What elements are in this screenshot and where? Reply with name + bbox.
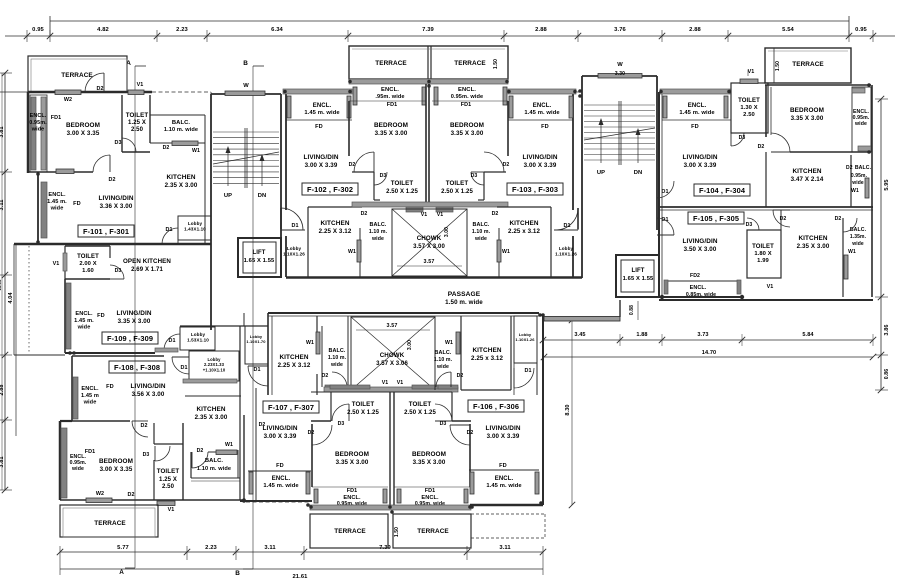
svg-text:BALC.: BALC. (329, 348, 346, 354)
svg-text:D3: D3 (440, 421, 447, 427)
svg-text:LIVING/DIN: LIVING/DIN (682, 154, 717, 161)
svg-text:D2: D2 (835, 216, 842, 222)
svg-text:1.88: 1.88 (636, 332, 647, 338)
svg-text:TOILET: TOILET (352, 401, 375, 408)
svg-text:D2: D2 (163, 145, 170, 151)
flat F-106 balcony strip (434, 317, 436, 390)
svg-text:LIVING/DIN: LIVING/DIN (682, 238, 717, 245)
svg-text:3.86: 3.86 (884, 324, 890, 335)
svg-text:Lobby: Lobby (188, 221, 203, 226)
svg-text:OPEN KITCHEN: OPEN KITCHEN (123, 258, 171, 265)
flat F-106 encl band (469, 469, 539, 471)
svg-text:21.61: 21.61 (292, 574, 308, 579)
svg-text:BEDROOM: BEDROOM (450, 122, 484, 129)
svg-text:D3: D3 (114, 140, 121, 146)
svg-text:3.11: 3.11 (0, 200, 5, 211)
flat F-107 balcony door D2 arc (332, 372, 347, 387)
flat F-102 encl sill hatch (283, 89, 352, 94)
wall to passage dot (243, 415, 245, 500)
svg-text:wide: wide (474, 236, 487, 242)
svg-text:D2: D2 (127, 492, 134, 498)
svg-text:wide: wide (371, 236, 384, 242)
svg-text:D2: D2 (349, 162, 356, 168)
flat F-107 terrace (310, 514, 388, 548)
svg-text:TERRACE: TERRACE (334, 528, 366, 535)
svg-text:FD: FD (315, 124, 323, 130)
flat F-104 terrace (765, 48, 851, 83)
svg-text:3.00 X 3.39: 3.00 X 3.39 (487, 433, 520, 440)
svg-text:3.57: 3.57 (387, 323, 398, 329)
svg-text:3.00: 3.00 (444, 227, 450, 237)
svg-text:BEDROOM: BEDROOM (99, 458, 133, 465)
toilet door D3 arc (122, 138, 136, 152)
lower building step wall (544, 317, 620, 322)
svg-text:1.10X1.26: 1.10X1.26 (555, 251, 577, 256)
flat F-102 bedroom door D2 (354, 152, 374, 172)
svg-text:KITCHEN: KITCHEN (166, 174, 195, 181)
svg-text:2.00 X: 2.00 X (79, 261, 96, 267)
svg-text:W1: W1 (192, 148, 200, 154)
flat F-102 toilet (373, 172, 375, 200)
svg-text:BALC.: BALC. (370, 222, 387, 228)
bedroom door D2 arc (93, 155, 110, 172)
svg-text:FD1: FD1 (425, 488, 435, 494)
svg-text:D1: D1 (661, 217, 668, 223)
svg-text:2.25 X 3.12: 2.25 X 3.12 (319, 228, 352, 235)
svg-text:2.50 X 1.25: 2.50 X 1.25 (347, 410, 379, 416)
svg-text:ENCL.: ENCL. (690, 285, 707, 291)
svg-text:FD1: FD1 (51, 115, 61, 121)
bottom dimension line segments (60, 551, 543, 553)
right wing dim 0.88 (637, 301, 639, 320)
flat F-109 left duct strip (13, 244, 15, 355)
flat F-102 label box (302, 183, 358, 195)
flat F-108 terrace (60, 505, 158, 537)
svg-text:wide: wide (31, 126, 44, 132)
svg-text:LIFT: LIFT (252, 250, 265, 256)
flat F-109 toilet (65, 245, 110, 247)
toilet vent V1 (128, 90, 144, 95)
svg-text:TOILET: TOILET (126, 112, 149, 119)
svg-text:4.82: 4.82 (97, 27, 109, 33)
flat F-104 toilet vent V1 (740, 79, 758, 84)
svg-text:TOILET: TOILET (391, 180, 414, 187)
svg-text:F-108 , F-308: F-108 , F-308 (114, 363, 160, 372)
flat F-103 lobby (554, 229, 578, 231)
flat F-104 bedroom (765, 85, 767, 137)
svg-text:TOILET: TOILET (409, 401, 432, 408)
svg-text:Lobby: Lobby (191, 332, 206, 337)
svg-text:1.10 m.: 1.10 m. (434, 357, 453, 363)
flat F-102 encl 0.95 band (353, 87, 357, 105)
svg-text:TOILET: TOILET (446, 180, 469, 187)
svg-text:CHOWK: CHOWK (380, 352, 405, 359)
flat F-104 left wall (658, 92, 660, 297)
svg-text:3.45: 3.45 (574, 332, 585, 338)
flat F-108 lobby sill (183, 379, 237, 383)
svg-text:2.88: 2.88 (689, 27, 701, 33)
svg-text:LIVING/DIN: LIVING/DIN (116, 310, 151, 317)
svg-text:PASSAGE: PASSAGE (448, 291, 481, 298)
svg-text:TERRACE: TERRACE (375, 60, 407, 67)
svg-text:3.00: 3.00 (407, 340, 413, 350)
flat F-104 encl 0.95 strip (852, 87, 871, 152)
svg-text:0.88: 0.88 (629, 305, 635, 315)
flat F-102 kitchen walls (307, 207, 309, 277)
svg-text:3.11: 3.11 (264, 545, 276, 551)
svg-text:W1: W1 (851, 188, 859, 194)
svg-text:KITCHEN: KITCHEN (196, 406, 225, 413)
dashed wall link left (152, 91, 211, 93)
svg-text:1.10 m.: 1.10 m. (369, 229, 388, 235)
flat F-108 toilet (153, 460, 155, 500)
svg-text:F-104 , F-304: F-104 , F-304 (699, 186, 746, 195)
flat F-106 toilet (451, 392, 453, 421)
lower right vertical dim 8.30 (571, 320, 573, 505)
svg-text:FD1: FD1 (461, 102, 471, 108)
flat F-106 bedroom door D2 (450, 425, 470, 445)
svg-text:D2: D2 (846, 165, 853, 171)
svg-text:ENCL.: ENCL. (458, 87, 476, 93)
svg-text:2.50: 2.50 (131, 127, 144, 133)
left stair treads (213, 131, 279, 133)
flat F-108 balcony (190, 452, 192, 478)
svg-text:3.00 X 3.39: 3.00 X 3.39 (684, 162, 717, 169)
flats F-104/F-105 divider wall (659, 206, 873, 208)
flat F-107 bedroom (311, 424, 313, 487)
left stair up arrow (227, 150, 229, 186)
flat F-106 right wall (542, 314, 544, 505)
svg-text:5.77: 5.77 (117, 545, 129, 551)
svg-text:5.84: 5.84 (802, 332, 814, 338)
flat F-102 left wall (285, 94, 287, 210)
svg-text:2.23: 2.23 (205, 545, 217, 551)
svg-text:TOILET: TOILET (738, 98, 760, 104)
svg-text:1.45 m.: 1.45 m. (47, 199, 67, 205)
flat F-102 kitchen W1 window (359, 228, 361, 277)
upper chowk lightwell (392, 209, 467, 276)
flat F-101 balcony (150, 114, 205, 116)
flat F-108 label box (109, 361, 165, 373)
svg-text:D1: D1 (165, 227, 172, 233)
dashed wall upper right (577, 91, 582, 93)
svg-text:W1: W1 (225, 442, 233, 448)
svg-text:W1: W1 (848, 249, 856, 255)
flat F-105 encl FD2 strip (665, 280, 740, 282)
svg-text:ENCL.: ENCL. (30, 113, 47, 119)
svg-text:FD: FD (499, 463, 507, 469)
svg-text:1.65 X 1.55: 1.65 X 1.55 (623, 276, 654, 282)
svg-text:F-101 , F-301: F-101 , F-301 (83, 227, 129, 236)
right stair break line (584, 128, 655, 140)
svg-text:BALC.: BALC. (435, 350, 452, 356)
flat F-104 encl sill hatch (660, 89, 730, 94)
center terraces outline (349, 46, 508, 79)
terrace sill hatch band (349, 79, 508, 84)
svg-text:BEDROOM: BEDROOM (790, 107, 824, 114)
svg-text:D1: D1 (253, 367, 260, 373)
svg-text:3.00 X 3.39: 3.00 X 3.39 (524, 162, 557, 169)
svg-text:5.54: 5.54 (782, 27, 794, 33)
right stair stringer (618, 101, 620, 165)
svg-text:3.00 X 3.39: 3.00 X 3.39 (264, 433, 297, 440)
svg-text:ENCL.: ENCL. (75, 311, 93, 317)
svg-text:3.00 X 3.35: 3.00 X 3.35 (67, 130, 100, 137)
svg-text:3.35 X 3.00: 3.35 X 3.00 (413, 459, 446, 466)
svg-text:wide: wide (436, 364, 449, 370)
svg-text:1.50 m. wide: 1.50 m. wide (445, 299, 483, 306)
svg-text:FD: FD (97, 313, 105, 319)
svg-text:D1: D1 (180, 365, 187, 371)
svg-text:D2: D2 (140, 423, 147, 429)
right stair side dots (578, 89, 582, 93)
right stair doors D1 (657, 181, 674, 198)
svg-text:B: B (243, 60, 248, 67)
svg-text:V1: V1 (168, 507, 175, 513)
flat F-103 entry door D1 (577, 208, 579, 229)
svg-text:16.06: 16.06 (0, 279, 2, 291)
svg-text:V1: V1 (421, 212, 428, 218)
right lift shaft (616, 255, 659, 297)
lower chowk dim 3.57 (356, 329, 430, 331)
svg-text:3.50 X 3.00: 3.50 X 3.00 (684, 246, 717, 253)
svg-text:ENCL.: ENCL. (48, 192, 66, 198)
flat F-109 toilet door D3 (110, 265, 124, 279)
svg-text:1.10X1.26: 1.10X1.26 (515, 337, 535, 342)
svg-text:FD: FD (106, 384, 114, 390)
svg-text:14.70: 14.70 (702, 350, 717, 356)
svg-text:D2: D2 (308, 430, 315, 436)
top dimension line segments (5, 35, 895, 37)
flat F-106 bottom wall (470, 504, 543, 506)
svg-text:DN: DN (258, 193, 267, 199)
flat F-106 balcony door D2 arc (436, 372, 451, 387)
svg-text:B: B (235, 570, 240, 577)
svg-text:W: W (617, 62, 623, 68)
left dimension line (4, 73, 6, 490)
flat F-109 entrance door D1 (164, 334, 180, 350)
left overall dimension line (1, 73, 3, 490)
flat F-104 encl band (663, 96, 667, 118)
flat F-102 encl band (287, 96, 291, 118)
svg-text:ENCL.: ENCL. (495, 476, 514, 482)
dashed passage line (246, 501, 310, 503)
flat F-108 balcony door D2 arc (192, 452, 208, 468)
flat F-103 label box (507, 183, 563, 195)
flat F-101 entrance door D1 (162, 228, 178, 244)
lower chowk lightwell (351, 317, 435, 390)
right stair window W (598, 74, 642, 79)
flat F-108 bottom wall (60, 499, 244, 501)
svg-text:1.25 X: 1.25 X (128, 120, 146, 126)
svg-text:2.50 X 1.25: 2.50 X 1.25 (441, 189, 473, 195)
flat F-102 toilet door D3 (374, 172, 387, 185)
svg-text:2.50: 2.50 (162, 484, 175, 490)
flat F-108 bedroom outer walls (59, 421, 62, 500)
flat F-105 kitchen (780, 210, 782, 230)
svg-text:F-106 , F-306: F-106 , F-306 (473, 402, 519, 411)
svg-text:LIVING/DIN: LIVING/DIN (522, 154, 557, 161)
svg-text:2.88: 2.88 (0, 384, 5, 395)
left inner dimension line (15, 244, 17, 436)
left stair stringer (244, 128, 246, 188)
svg-text:0.95: 0.95 (32, 27, 44, 33)
flat F-106 terrace (393, 514, 471, 548)
right wing dim line (543, 339, 873, 341)
flat F-103 encl 0.95 band (434, 87, 438, 105)
flat F-105 toilet door D3 arc (747, 218, 759, 230)
svg-text:D2: D2 (197, 448, 204, 454)
svg-text:FD2: FD2 (690, 273, 700, 279)
flat F-103 toilet door D3 (471, 172, 484, 185)
svg-text:1.10 m.: 1.10 m. (472, 229, 491, 235)
svg-text:wide: wide (330, 362, 343, 368)
left stair dn arrow (261, 158, 263, 186)
flat F-101 encl hatch strip lower (41, 182, 47, 238)
svg-text:D1: D1 (291, 223, 298, 229)
svg-text:W2: W2 (64, 97, 72, 103)
svg-text:D2: D2 (322, 373, 329, 379)
svg-text:D3: D3 (471, 173, 478, 179)
svg-text:BALC.: BALC. (172, 120, 190, 126)
svg-text:+1.10X1.10: +1.10X1.10 (203, 367, 226, 372)
svg-text:KITCHEN: KITCHEN (509, 220, 538, 227)
flat F-104 bedroom bottom wall (790, 151, 871, 153)
svg-text:2.35 X 3.00: 2.35 X 3.00 (165, 182, 198, 189)
svg-text:V1: V1 (748, 69, 755, 75)
right stairwell walls (581, 76, 583, 278)
flat F-102 bedroom walls (348, 101, 350, 156)
svg-text:D1: D1 (563, 223, 570, 229)
passage lower wall (268, 312, 539, 314)
flat F-105 balcony door arc (843, 218, 857, 232)
flat F-108 bedroom door D2 top (132, 421, 148, 437)
svg-text:1.43X1.10: 1.43X1.10 (184, 226, 206, 231)
terrace door D2 arc (85, 73, 104, 92)
lobby wall below left stair (180, 325, 268, 327)
svg-text:3.30: 3.30 (615, 71, 625, 77)
svg-text:KITCHEN: KITCHEN (472, 347, 501, 354)
flat F-106 bedroom (469, 424, 471, 487)
lower flats sill row bottom (310, 505, 471, 510)
svg-text:0.95m. wide: 0.95m. wide (451, 94, 484, 100)
svg-text:3.73: 3.73 (697, 332, 708, 338)
svg-text:W1: W1 (445, 340, 453, 346)
svg-text:W2: W2 (96, 491, 104, 497)
svg-text:FD1: FD1 (85, 449, 95, 455)
flat F-103 kitchen (498, 228, 500, 277)
svg-text:1.45 m. wide: 1.45 m. wide (304, 110, 340, 116)
svg-text:8.30: 8.30 (565, 404, 571, 415)
svg-text:wide: wide (50, 206, 64, 212)
svg-text:1.65 X 1.55: 1.65 X 1.55 (244, 258, 275, 264)
svg-text:1.99: 1.99 (757, 258, 769, 264)
svg-text:3.35 X 3.00: 3.35 X 3.00 (336, 459, 369, 466)
flat F-108 kitchen (185, 395, 241, 397)
svg-text:FD: FD (691, 124, 699, 130)
svg-text:3.00 X 3.35: 3.00 X 3.35 (100, 466, 133, 473)
svg-text:wide: wide (71, 466, 84, 472)
flat F-103 balcony strip (466, 209, 468, 276)
svg-text:W1: W1 (348, 249, 356, 255)
svg-text:Lobby: Lobby (559, 246, 574, 251)
svg-text:BALC.: BALC. (205, 458, 223, 464)
flat F-107 center wall (389, 392, 391, 505)
middle lobby walls (239, 326, 241, 500)
svg-text:UP: UP (224, 193, 232, 199)
svg-text:wide: wide (851, 180, 864, 186)
flat F-109 entrance lobby (180, 327, 215, 350)
svg-text:wide: wide (851, 241, 864, 247)
svg-text:CHOWK: CHOWK (417, 235, 442, 242)
svg-text:ENCL.: ENCL. (688, 103, 707, 109)
svg-text:1.45 m. wide: 1.45 m. wide (524, 110, 560, 116)
flat F-106 encl 0.95 band (394, 486, 470, 488)
svg-text:D2: D2 (758, 144, 765, 150)
svg-text:2.50 X 1.25: 2.50 X 1.25 (404, 410, 436, 416)
svg-text:1.10 m. wide: 1.10 m. wide (164, 127, 198, 133)
flat F-101 encl hatch strip upper (30, 95, 47, 172)
top dimension line overall (50, 20, 849, 22)
flat F-106 lobby (514, 316, 537, 363)
svg-text:D3: D3 (746, 222, 753, 228)
terrace dashed extension (471, 513, 545, 515)
svg-text:LIVING/DIN: LIVING/DIN (485, 425, 520, 432)
svg-text:1.45 m. wide: 1.45 m. wide (486, 483, 522, 489)
flat F-107 kitchen (316, 316, 318, 352)
upper toilets sill row (352, 202, 508, 207)
svg-text:wide: wide (83, 400, 97, 406)
bottom overall dimension line 21.61 (60, 568, 543, 570)
flat F-103 encl band (508, 89, 576, 94)
svg-text:BALC.: BALC. (855, 165, 872, 171)
svg-text:4.04: 4.04 (8, 292, 14, 304)
section line B (252, 66, 254, 569)
svg-text:D2: D2 (361, 211, 368, 217)
section line A (134, 66, 136, 568)
flat F-104 toilet (731, 83, 768, 133)
svg-text:TERRACE: TERRACE (94, 520, 126, 527)
svg-text:1.50: 1.50 (493, 59, 499, 69)
svg-text:1.30 X: 1.30 X (740, 105, 757, 111)
lower flats toilets sill row (324, 387, 458, 392)
svg-text:BEDROOM: BEDROOM (66, 122, 100, 129)
svg-text:1.45 m. wide: 1.45 m. wide (263, 483, 299, 489)
flat F-103 right wall (572, 94, 574, 210)
svg-text:TERRACE: TERRACE (454, 60, 486, 67)
right wing dim 14.70 (544, 356, 873, 358)
svg-text:A: A (119, 569, 124, 576)
flat F-104 right wall (871, 85, 873, 297)
svg-text:UP: UP (597, 170, 605, 176)
left stair break line (213, 152, 279, 164)
svg-text:W1: W1 (502, 249, 510, 255)
svg-text:6.34: 6.34 (271, 27, 283, 33)
svg-text:1.25 X: 1.25 X (159, 477, 177, 483)
svg-text:2.69 X 1.71: 2.69 X 1.71 (131, 267, 163, 273)
flat F-101 terrace outline (28, 56, 127, 92)
svg-text:0.95m.: 0.95m. (29, 120, 47, 126)
svg-text:F-103 , F-303: F-103 , F-303 (512, 185, 558, 194)
svg-text:1.50: 1.50 (394, 527, 400, 537)
svg-text:2.25 x 3.12: 2.25 x 3.12 (471, 355, 504, 362)
flat F-107 toilet (330, 392, 332, 421)
flat F-104 toilet door D3 (731, 133, 744, 146)
svg-text:BEDROOM: BEDROOM (374, 122, 408, 129)
svg-text:ENCL.: ENCL. (313, 103, 332, 109)
svg-text:2.35 X 3.00: 2.35 X 3.00 (195, 414, 228, 421)
svg-text:2.25 X 3.12: 2.25 X 3.12 (278, 362, 311, 369)
